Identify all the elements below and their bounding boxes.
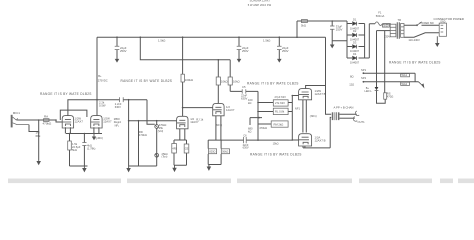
svg-text:68k: 68k	[36, 134, 41, 138]
wire B+ drop x325.5 to jack tip	[326, 37, 332, 114]
ground cathode MC arrow	[93, 134, 95, 138]
resistor box PI cathode right	[221, 149, 229, 154]
svg-text:MIC1: MIC1	[13, 111, 20, 115]
wire diode left bus	[346, 21, 348, 58]
svg-text:B+: B+	[98, 74, 102, 78]
svg-text:10kΩ: 10kΩ	[233, 79, 240, 83]
svg-text:C6: C6	[243, 134, 247, 138]
wire tube4 cathode legs to bus	[216, 116, 221, 140]
node input wire junctions	[38, 119, 40, 121]
wire stub y117.6	[250, 118, 262, 125]
svg-text:470kΩ: 470kΩ	[259, 126, 267, 130]
wire CD output drop to pot	[147, 100, 155, 125]
switch SW1	[417, 22, 422, 25]
wire output top line	[339, 113, 356, 115]
connector power box	[439, 23, 446, 36]
wire output bottom line	[339, 117, 354, 119]
svg-text:POWER SW: POWER SW	[420, 22, 435, 25]
svg-text:5 W AMP 2010 FW: 5 W AMP 2010 FW	[248, 3, 272, 7]
resistor RP on y21	[301, 20, 307, 23]
wire screen resistor drop x229	[229, 60, 231, 92]
wire plate tie line y99.7	[68, 100, 147, 116]
tube V2 12AX7b	[91, 116, 102, 128]
wire filter cap drop x279	[278, 37, 280, 59]
svg-text:D3: D3	[353, 41, 357, 45]
svg-text:D2: D2	[353, 29, 357, 33]
wire B+ top line y21	[297, 20, 347, 22]
transformer TR core	[397, 22, 399, 38]
svg-text:630V: 630V	[115, 105, 121, 109]
capacitor filter C2	[237, 46, 242, 49]
wire heater drop B	[384, 31, 386, 93]
svg-text:12AX7 B: 12AX7 B	[315, 92, 326, 96]
potentiometer P2	[155, 153, 159, 157]
ground under C2	[238, 59, 241, 62]
wire xfmr lower primary	[377, 30, 391, 32]
wire SRPP twin links tubeA cathode to tubeB top	[303, 100, 306, 133]
node heater line terminals	[363, 72, 365, 74]
node cathode bus junctions	[69, 133, 71, 135]
svg-text:470kΩ: 470kΩ	[139, 133, 147, 137]
svg-text:TR: TR	[398, 18, 402, 22]
svg-text:CONNECTOR POWER: CONNECTOR POWER	[434, 17, 464, 21]
capacitor filter C1	[115, 46, 120, 49]
node B+ top line junction	[331, 20, 333, 22]
svg-text:5kΩ: 5kΩ	[72, 148, 77, 152]
svg-text:RM 2kΩ: RM 2kΩ	[274, 122, 284, 126]
svg-text:D1: D1	[353, 18, 357, 22]
transformer TR secondary winding box	[401, 24, 404, 38]
svg-text:WA2: WA2	[402, 82, 408, 86]
wire cathode bus tubes 1-2	[66, 133, 102, 135]
wire tube3 cathode	[174, 129, 187, 165]
svg-text:1.5kΩ: 1.5kΩ	[158, 39, 165, 43]
node plate tie junction	[96, 99, 98, 101]
ground under C3	[278, 59, 281, 62]
svg-text:D4: D4	[353, 52, 357, 56]
potentiometer P1	[155, 125, 159, 129]
wire cathode network verticals	[208, 140, 221, 167]
wire diode row3	[347, 46, 365, 48]
svg-text:RA: RA	[44, 115, 48, 119]
wire LED bottom U to RS	[377, 90, 386, 103]
svg-text:RANGE IT IS BY WATE DLB2S: RANGE IT IS BY WATE DLB2S	[121, 79, 173, 83]
transformer TR primary winding box	[390, 24, 396, 37]
tube V3	[177, 116, 188, 129]
grid box upper	[273, 100, 288, 106]
ground g3 x125.5	[128, 166, 130, 169]
svg-text:230V: 230V	[384, 34, 390, 38]
svg-text:kΩ: kΩ	[248, 130, 251, 134]
ground symbols	[37, 36, 439, 171]
node PI output junctions	[257, 102, 259, 104]
node rail junctions	[116, 36, 118, 38]
wire tube3 plate to tube4 grid	[183, 107, 213, 109]
node signal line junctions	[128, 120, 130, 122]
ground g2 x84	[83, 166, 85, 169]
box CE tube3 cathode	[184, 144, 189, 153]
svg-text:15kΩ: 15kΩ	[273, 142, 279, 145]
svg-text:GND: GND	[440, 22, 445, 24]
svg-text:RJ 1k: RJ 1k	[196, 118, 204, 122]
wire NF box3 link	[258, 123, 271, 125]
svg-text:(NF1): (NF1)	[310, 114, 317, 118]
ground under C1	[116, 59, 119, 62]
wire tubeA plate to B+	[306, 86, 326, 89]
resistor RS	[384, 93, 387, 99]
wire tube2 grid feed	[60, 110, 87, 120]
svg-text:A PP + B CHAN: A PP + B CHAN	[334, 106, 354, 110]
tube V6 output B	[299, 134, 312, 146]
svg-text:250V: 250V	[242, 49, 249, 53]
wire B+ drop to tube2 plate x97	[96, 37, 98, 116]
wire diode row1	[347, 23, 365, 25]
svg-text:12AX7: 12AX7	[75, 120, 84, 124]
svg-text:(pMC): (pMC)	[96, 136, 104, 140]
tube V5 output A	[299, 89, 312, 100]
wire grid-leak drop x38.7	[38, 120, 40, 160]
capacitor cathode x84.4	[82, 143, 86, 146]
resistor 100k on x182.6	[181, 74, 184, 82]
svg-text:(Vol): (Vol)	[158, 129, 163, 133]
box RE tube3 cathode	[172, 144, 177, 154]
wire PI cathode bus y140	[208, 139, 292, 141]
svg-text:RANGE IT IS BY WATE DLB2S: RANGE IT IS BY WATE DLB2S	[389, 61, 441, 65]
wire diode right bus	[365, 24, 370, 59]
resistor cathode box x69.5	[68, 141, 72, 150]
wire grid leak RD drop x138.5	[138, 121, 140, 166]
svg-text:275VDC: 275VDC	[98, 78, 108, 82]
arrow SP2 end	[419, 82, 422, 85]
svg-text:RANGE IT IS BY WATE DLB2S: RANGE IT IS BY WATE DLB2S	[247, 81, 299, 85]
jack input J1	[11, 115, 13, 128]
svg-text:5kΩ: 5kΩ	[301, 23, 306, 27]
svg-text:CE: CE	[185, 146, 189, 150]
svg-text:12Ω: 12Ω	[349, 83, 354, 87]
capacitor CD series on plate line	[120, 97, 124, 102]
wire tubeA grid	[292, 95, 298, 97]
wire diode row2	[347, 34, 365, 36]
wire tubeB grid	[292, 139, 298, 141]
svg-text:C5: C5	[242, 85, 246, 89]
wire heater line SP1	[363, 72, 415, 74]
svg-text:820Ω: 820Ω	[209, 151, 215, 154]
svg-text:100kΩ: 100kΩ	[185, 78, 193, 82]
resistor RA	[44, 119, 50, 122]
svg-text:12AX7: 12AX7	[103, 120, 112, 124]
wire PI output drop x258	[257, 91, 259, 140]
ground g1 x38.7	[38, 160, 40, 162]
output connector hooks	[353, 111, 359, 121]
svg-text:SCHEMA 12AX7: SCHEMA 12AX7	[250, 0, 271, 2]
wire coupling drop x128.6	[128, 100, 130, 166]
diodes D1-D4	[353, 22, 357, 60]
wire screen feed drop x140	[140, 37, 230, 60]
wire filter cap drop x239	[238, 37, 240, 59]
capacitor PSU C0	[330, 26, 335, 29]
svg-text:27k 63V: 27k 63V	[275, 101, 285, 105]
grid box lower	[273, 108, 288, 114]
capacitor C6 series on PI cathode bus	[244, 137, 247, 143]
svg-text:250V: 250V	[120, 49, 127, 53]
svg-text:5x20: 5x20	[383, 25, 389, 28]
bottom gray band	[8, 179, 474, 184]
wire xfmr secondary right top	[404, 24, 439, 26]
wire signal line y120.7	[129, 120, 177, 122]
wire PSU cap x332	[332, 21, 347, 45]
wire grid bus x292.3	[291, 96, 293, 141]
svg-text:NF₂: NF₂	[115, 124, 119, 128]
tube V4 phase inverter	[213, 103, 224, 115]
svg-text:1.5kΩ: 1.5kΩ	[263, 39, 270, 43]
wire cathode drop x84.4	[70, 134, 88, 167]
svg-text:12AX7 B: 12AX7 B	[315, 139, 326, 143]
wire filter cap drop x117	[116, 37, 118, 59]
svg-text:LED L: LED L	[365, 89, 373, 93]
output transformer T2	[332, 112, 334, 120]
wire ground bus stage3	[129, 165, 157, 167]
capacitor C5 series	[242, 89, 246, 93]
svg-text:470Ω: 470Ω	[387, 95, 394, 99]
resistor box PI cathode left	[208, 149, 216, 154]
wire fuse line	[369, 23, 390, 26]
svg-text:kΩ: kΩ	[248, 101, 251, 105]
wire cathode drop x69.5	[69, 134, 71, 167]
svg-text:F1: F1	[378, 10, 382, 14]
svg-text:0.5W: 0.5W	[99, 104, 106, 108]
svg-text:630V: 630V	[241, 97, 247, 101]
svg-text:(Ton): (Ton)	[162, 155, 168, 159]
LED indicator	[375, 87, 379, 90]
svg-text:250V: 250V	[336, 28, 343, 32]
wire volume pot drop	[156, 121, 158, 166]
svg-text:56kΩ: 56kΩ	[222, 151, 228, 154]
svg-text:500mA: 500mA	[376, 14, 385, 18]
box RM	[271, 121, 288, 127]
node tube3 plate to PI grid junction	[182, 107, 184, 109]
wire fuse drop to diode bus	[368, 24, 370, 58]
wire xfmr secondary right bottom diagonal	[404, 33, 439, 37]
svg-text:(NF1): (NF1)	[216, 123, 223, 127]
svg-text:WA1: WA1	[402, 73, 408, 77]
node screen feed junction	[218, 59, 220, 61]
wire tube1 cathode legs	[65, 127, 70, 133]
svg-text:1N4007: 1N4007	[350, 61, 360, 65]
wire heater line SP2	[363, 73, 418, 82]
ground under PSU cap	[331, 45, 334, 48]
wire tube3 plate riser x182.6	[182, 37, 184, 116]
wire output stage links x258 to grid boxes	[258, 103, 292, 112]
svg-text:(1.78k): (1.78k)	[87, 147, 95, 151]
svg-text:12AX7: 12AX7	[226, 108, 235, 112]
wire input line y120	[17, 120, 62, 122]
fuse F1	[375, 22, 382, 26]
wire tube2 cathode legs	[94, 127, 99, 133]
svg-text:OUT1: OUT1	[358, 120, 366, 124]
ground g4 x173	[174, 165, 176, 168]
svg-text:630V: 630V	[243, 146, 249, 150]
wire jack sleeve return	[29, 125, 39, 132]
ground g5 PI cathode	[207, 167, 210, 170]
wire rail riser x297	[296, 21, 298, 37]
svg-text:27μF 63V: 27μF 63V	[275, 95, 287, 99]
wire C5 feed line y91.4	[230, 90, 258, 92]
wire tubeB cathode to jack sleeve	[303, 117, 331, 147]
svg-text:RL 0.8k: RL 0.8k	[275, 110, 285, 114]
svg-text:RANGE IT IS BY WATE DLB2S: RANGE IT IS BY WATE DLB2S	[250, 153, 302, 157]
WA2 tag box	[401, 82, 410, 85]
resistor box on x217	[216, 77, 220, 85]
watermark texts	[40, 0, 441, 157]
wire diode row4	[347, 57, 365, 59]
svg-text:RegrA: RegrA	[114, 120, 122, 124]
tube symbols	[62, 89, 311, 146]
wire top B+ rail	[97, 36, 326, 38]
svg-text:SP1: SP1	[361, 68, 367, 72]
svg-text:110-230V: 110-230V	[408, 38, 420, 42]
node grid bus junctions	[292, 95, 294, 97]
wire screen resistor drop x217	[217, 60, 219, 104]
svg-text:250V: 250V	[282, 49, 289, 53]
capacitor filter C3	[277, 46, 282, 49]
svg-text:NF1: NF1	[295, 107, 301, 111]
svg-text:RANGE IT IS BY WATE DLB2S: RANGE IT IS BY WATE DLB2S	[40, 92, 92, 96]
WA1 tag box	[401, 74, 410, 77]
svg-text:10kΩ: 10kΩ	[221, 79, 228, 83]
tube V1 12AX7a	[62, 116, 73, 128]
svg-text:470kΩ: 470kΩ	[43, 122, 53, 126]
resistor box on x229	[228, 77, 232, 85]
svg-text:8Ω: 8Ω	[350, 75, 354, 79]
wire heater drop A	[376, 31, 378, 87]
ground connector	[436, 36, 438, 43]
svg-text:4R5: 4R5	[172, 146, 177, 150]
svg-text:SP2: SP2	[361, 76, 367, 80]
